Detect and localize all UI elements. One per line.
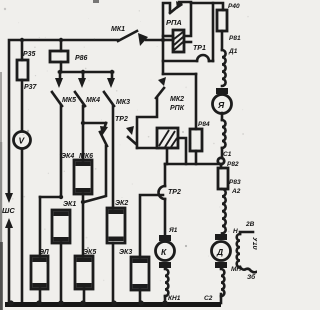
svg-text:ШС: ШС [2,206,15,215]
svg-text:Р37: Р37 [24,84,38,91]
relay coil РПК [157,128,178,148]
node bus К [162,300,168,306]
wire РПК coil out right [178,138,186,164]
inductor below Я [222,120,226,148]
svg-text:МН: МН [231,266,241,273]
terminal С1 [218,151,232,164]
wire РПА hold loop [191,3,213,61]
contact МК1 [111,26,163,46]
wire ЭК3 feed [140,195,163,257]
svg-text:МК3: МК3 [116,99,130,106]
wire МК2 frame right [195,74,198,129]
voltmeter V [14,132,31,149]
svg-text:ТР2: ТР2 [115,116,128,123]
node bus ЭК3 [138,300,144,306]
svg-text:МК4: МК4 [86,97,100,104]
contact МК2 [156,74,196,112]
relay РПА frame with contact [163,1,191,74]
wire into РПА coil [163,39,173,42]
svg-text:С1: С1 [223,151,232,158]
wire ЭК5 down [83,289,86,304]
node bus ЭЛ [36,300,42,306]
contact МК6 [79,123,108,160]
wire voltmeter to bottom bus [21,149,24,304]
wire to terminal С1 [221,148,224,158]
resistor Р83 [218,168,241,189]
wire ЭК2 down [112,243,115,304]
wire МК2 to loop [137,98,157,148]
relay coil РПА [173,30,184,52]
node bus2 right [110,70,114,74]
svg-text:ЭК2: ЭК2 [115,200,128,207]
node РПА input [161,38,165,42]
svg-text:Д: Д [216,247,223,257]
resistor Р84 [190,121,210,151]
wire R86 to bus2 [60,62,63,72]
wire К column top [164,164,167,186]
machine Я brush cap top [216,88,228,94]
wire МК4 down [82,106,85,160]
wire С1 to Р83 [220,164,223,168]
wire ЭЛ down [39,289,42,304]
arrow up (from ШС) [5,218,13,228]
wire РПК coil out bottom [166,148,169,164]
wire РПА coil out [184,41,191,44]
wire top right [213,3,223,10]
wire loop to РПК coil [137,147,158,150]
svg-text:ЭК5: ЭК5 [83,249,96,256]
scan speck mid [27,130,29,132]
wire Р40 down [221,31,224,50]
scan grain [8,10,249,295]
wire ЭК1 down [60,243,63,304]
svg-text:МК1: МК1 [111,26,125,33]
node below ЭК4 [81,200,85,204]
contactor coil ЭК4 [61,153,92,194]
machine Д brush cap bottom [215,262,227,268]
svg-text:МК5: МК5 [62,97,76,104]
contactor coil ЭК5 [75,249,96,289]
wire Д to bus [220,294,223,303]
node bus ШС [8,300,14,306]
scan speck top [93,0,99,3]
svg-text:Р40: Р40 [228,3,240,10]
wire bus2 [59,71,113,74]
machine Д brush cap top [215,234,227,240]
machine К [156,242,175,261]
svg-text:РПА: РПА [166,18,182,27]
contactor coil ЭЛ [31,249,49,289]
wire ЭК3 down [139,290,142,304]
wire МК6 down [84,146,106,202]
svg-text:Р86: Р86 [75,55,88,62]
wire ШС to bottom bus [8,227,11,304]
wire МК3 down [112,106,115,208]
wire branch to ЭЛ [40,196,61,199]
svg-text:ЭК1: ЭК1 [63,201,76,208]
contact МК5 [52,72,76,106]
node bus2 mid [81,70,85,74]
contactor coil ЭК2 [107,200,128,243]
wire to R86 [60,40,63,51]
wire top bus [9,40,118,194]
wire МК5 down [60,106,63,197]
svg-text:А2: А2 [231,188,241,195]
wire К to bus [164,296,167,304]
svg-text:ЭЛ: ЭЛ [39,249,49,256]
bottom bus [5,302,221,307]
node bus ЭК2 [111,300,117,306]
svg-text:ЭК4: ЭК4 [61,153,74,160]
svg-text:К: К [161,247,167,257]
svg-text:2В: 2В [245,221,255,228]
svg-text:Н: Н [233,228,238,235]
wire to R35 [21,40,24,60]
wire hook to К [164,199,167,235]
wire horizontal link [165,163,218,166]
arrow down (to ШС) [5,193,13,203]
inductor below Д [221,269,224,296]
svg-text:КН1: КН1 [168,295,181,302]
resistor Р40 [217,3,240,31]
contactor coil ЭК1 [52,201,76,243]
svg-text:С2: С2 [204,295,213,302]
field winding МН [231,221,258,281]
svg-text:Р35: Р35 [23,51,36,58]
inductor below К [165,269,168,296]
svg-text:ЭК3: ЭК3 [119,249,132,256]
node bus ЭК1 [58,300,64,306]
wire below Я [221,113,224,120]
wire Р84 down [195,151,198,164]
resistor Р35 [17,60,28,80]
machine Д [212,242,231,261]
svg-text:Я1: Я1 [168,227,178,234]
wire ЭЛ feed [39,197,42,256]
svg-text:РПК: РПК [170,105,185,112]
resistor Р86 [50,51,68,62]
svg-text:Я: Я [217,100,225,110]
thermal contact ТР1 [163,45,213,61]
contact МК3 [104,72,130,106]
contactor coil ЭК3 [119,249,149,290]
wire ЭК4 down [82,194,85,256]
svg-text:ТР1: ТР1 [193,45,206,52]
svg-text:У10: У10 [251,237,257,250]
scan streak left edge [0,72,2,142]
contact МК4 [75,72,100,106]
machine Я armature [213,95,232,114]
thermal contact ТР2 (hook) [159,186,181,199]
node bus ЭК5 [80,300,86,306]
svg-text:Р84: Р84 [198,121,210,128]
node junction R35 [20,38,24,42]
node МК6 branch [81,121,85,125]
svg-text:ТР2: ТР2 [168,189,181,196]
node ЭК1 top [59,195,63,199]
inductor Д1 [222,48,238,86]
svg-text:Р83: Р83 [229,179,241,186]
inductor А2 [222,189,226,233]
wire to МК6 [83,122,106,125]
wire R35 to voltmeter [21,80,24,131]
scan speck corner [4,8,6,10]
svg-text:Д1: Д1 [228,48,238,55]
node bus2 left [58,70,62,74]
node junction R86 [59,38,63,42]
contact ТР2 [115,116,136,144]
svg-text:Зб: Зб [247,273,256,281]
svg-text:МК2: МК2 [170,96,184,103]
svg-text:Р81: Р81 [229,35,241,42]
machine К brush cap top [159,235,171,241]
machine К brush cap bottom [159,262,171,268]
